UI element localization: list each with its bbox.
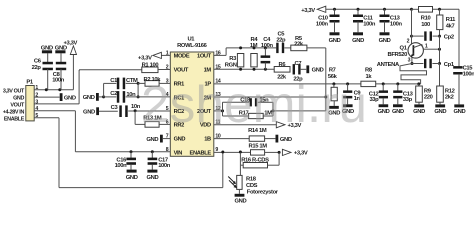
svg-text:22k: 22k	[294, 42, 304, 48]
svg-text:CTM: CTM	[126, 78, 138, 84]
svg-text:GND: GND	[83, 95, 95, 101]
svg-text:R3: R3	[229, 56, 237, 62]
svg-text:C6: C6	[34, 59, 42, 65]
svg-text:+3,3V: +3,3V	[294, 151, 308, 157]
svg-text:C3: C3	[111, 105, 119, 111]
svg-text:GND: GND	[329, 38, 341, 44]
svg-text:100n: 100n	[115, 163, 128, 169]
svg-text:22p: 22p	[276, 38, 286, 44]
svg-text:100n: 100n	[261, 43, 274, 49]
svg-text:100n: 100n	[52, 77, 65, 83]
svg-text:GND: GND	[280, 137, 292, 143]
svg-text:220: 220	[424, 95, 433, 101]
svg-text:1B: 1B	[204, 137, 211, 143]
svg-text:+3,3V: +3,3V	[301, 8, 315, 14]
svg-text:R9: R9	[424, 89, 432, 95]
svg-text:10n: 10n	[126, 92, 136, 98]
svg-text:C5: C5	[277, 31, 285, 37]
svg-text:2shemi.ru: 2shemi.ru	[141, 76, 367, 134]
svg-text:ROWL-9166: ROWL-9166	[177, 43, 208, 49]
svg-text:1M: 1M	[250, 43, 258, 49]
svg-text:C1: C1	[110, 78, 118, 84]
svg-text:R6: R6	[279, 62, 287, 68]
svg-text:100n: 100n	[390, 22, 403, 28]
svg-text:Fotorezystor: Fotorezystor	[247, 190, 279, 196]
svg-text:100n: 100n	[363, 22, 376, 28]
svg-text:R10: R10	[421, 16, 431, 22]
svg-text:GND: GND	[13, 96, 24, 102]
svg-text:GND: GND	[55, 45, 67, 51]
svg-text:C7: C7	[295, 61, 302, 67]
svg-text:MODE: MODE	[174, 54, 190, 60]
svg-text:ANTENA: ANTENA	[377, 62, 400, 68]
svg-text:100: 100	[421, 22, 430, 28]
svg-text:BFR520: BFR520	[388, 52, 408, 58]
svg-text:GND: GND	[146, 175, 158, 181]
svg-text:R11: R11	[446, 17, 456, 23]
svg-text:R8: R8	[365, 68, 373, 74]
svg-text:+3,3V: +3,3V	[138, 56, 152, 62]
svg-text:1M: 1M	[204, 68, 212, 74]
svg-text:Cp1: Cp1	[444, 62, 455, 68]
svg-text:C2: C2	[110, 91, 117, 97]
svg-text:GND: GND	[83, 110, 95, 116]
svg-text:VOUT: VOUT	[10, 103, 25, 109]
svg-text:R12: R12	[445, 89, 455, 95]
svg-text:GND: GND	[392, 109, 404, 115]
svg-text:4k7: 4k7	[446, 23, 455, 29]
svg-text:Q1: Q1	[400, 45, 408, 51]
svg-text:+4-28V IN: +4-28V IN	[3, 109, 25, 115]
svg-text:33p: 33p	[403, 97, 413, 103]
svg-text:GND: GND	[352, 38, 364, 44]
svg-text:ENABLE: ENABLE	[190, 150, 212, 156]
svg-text:R15 1M: R15 1M	[248, 144, 267, 150]
svg-text:100n: 100n	[158, 163, 171, 169]
svg-text:1: 1	[425, 44, 428, 50]
svg-text:RGN: RGN	[225, 62, 237, 68]
svg-text:GND: GND	[146, 137, 158, 143]
svg-text:GND: GND	[41, 45, 53, 51]
svg-text:GND: GND	[126, 175, 138, 181]
svg-text:GND: GND	[174, 137, 186, 143]
svg-text:Cp2: Cp2	[444, 35, 454, 41]
svg-text:VIN: VIN	[174, 150, 183, 156]
svg-text:R18: R18	[246, 176, 257, 182]
svg-text:22p: 22p	[32, 65, 42, 71]
svg-text:2k2: 2k2	[445, 95, 454, 101]
svg-text:R16 R-CDS: R16 R-CDS	[241, 157, 269, 163]
svg-text:33p: 33p	[369, 97, 379, 103]
svg-text:100n: 100n	[316, 22, 329, 28]
svg-text:GND: GND	[434, 109, 446, 115]
svg-text:CDS: CDS	[246, 183, 258, 189]
svg-text:P1: P1	[26, 79, 34, 85]
svg-text:R1 100: R1 100	[142, 63, 159, 69]
svg-text:R7: R7	[329, 68, 336, 74]
svg-text:GND: GND	[234, 198, 246, 203]
svg-text:1OUT: 1OUT	[197, 54, 212, 60]
svg-text:3,3V OUT: 3,3V OUT	[3, 88, 25, 94]
svg-text:GND: GND	[312, 68, 324, 74]
svg-text:10n: 10n	[131, 104, 141, 110]
svg-text:GND: GND	[453, 109, 465, 115]
svg-text:GND: GND	[379, 38, 391, 44]
svg-text:ENABLE: ENABLE	[4, 116, 25, 122]
svg-text:VOUT: VOUT	[174, 68, 189, 74]
svg-text:100n: 100n	[463, 71, 474, 77]
svg-text:U1: U1	[187, 37, 195, 43]
svg-text:GND: GND	[413, 109, 425, 115]
svg-text:GND: GND	[64, 95, 76, 101]
svg-text:GND: GND	[378, 109, 390, 115]
